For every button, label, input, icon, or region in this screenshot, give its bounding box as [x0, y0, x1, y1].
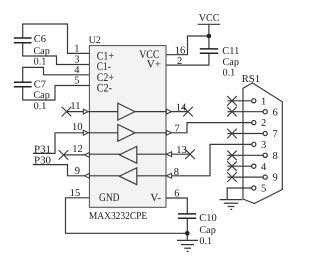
svg-text:1: 1: [261, 96, 266, 107]
svg-text:6: 6: [174, 188, 179, 199]
svg-text:8: 8: [174, 167, 179, 178]
svg-text:8: 8: [273, 151, 278, 162]
svg-text:0.1: 0.1: [223, 67, 236, 78]
svg-text:P31: P31: [34, 144, 51, 155]
svg-text:7: 7: [175, 124, 180, 135]
svg-text:0.1: 0.1: [34, 57, 47, 68]
svg-text:Cap: Cap: [33, 90, 49, 101]
svg-text:1: 1: [74, 44, 79, 55]
svg-text:RS1: RS1: [242, 74, 261, 85]
svg-text:12: 12: [72, 144, 83, 155]
svg-text:P30: P30: [34, 155, 51, 166]
svg-text:5: 5: [74, 76, 79, 87]
svg-text:GND: GND: [99, 192, 120, 204]
svg-text:MAX3232CPE: MAX3232CPE: [89, 211, 147, 222]
svg-text:Cap: Cap: [33, 46, 49, 57]
svg-text:U2: U2: [89, 35, 101, 46]
svg-text:13: 13: [176, 145, 187, 156]
svg-text:0.1: 0.1: [199, 236, 212, 247]
svg-text:16: 16: [175, 46, 186, 57]
svg-text:15: 15: [70, 188, 81, 199]
svg-text:C6: C6: [34, 34, 46, 45]
svg-text:9: 9: [273, 173, 278, 184]
svg-text:6: 6: [273, 107, 278, 118]
svg-text:VCC: VCC: [199, 13, 220, 24]
svg-text:C11: C11: [222, 46, 239, 57]
svg-text:4: 4: [74, 65, 80, 76]
svg-text:2: 2: [177, 56, 182, 67]
svg-text:Cap: Cap: [199, 225, 215, 236]
svg-text:C10: C10: [199, 213, 217, 224]
svg-text:2: 2: [261, 118, 266, 129]
svg-text:9: 9: [75, 166, 80, 177]
svg-text:C2-: C2-: [97, 83, 112, 95]
svg-text:V-: V-: [150, 192, 161, 204]
svg-text:5: 5: [261, 183, 266, 194]
svg-text:V+: V+: [147, 59, 161, 71]
svg-text:11: 11: [70, 101, 80, 112]
svg-text:10: 10: [72, 122, 83, 133]
svg-text:3: 3: [261, 140, 266, 151]
svg-text:7: 7: [273, 129, 278, 140]
svg-text:14: 14: [176, 102, 187, 113]
svg-text:4: 4: [261, 162, 267, 173]
svg-text:0.1: 0.1: [34, 101, 47, 112]
